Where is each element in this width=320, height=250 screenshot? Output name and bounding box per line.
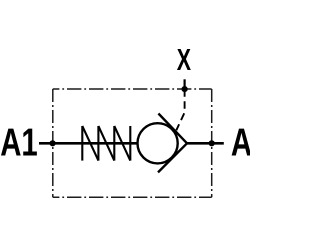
check valve ball (circle)	[138, 123, 178, 163]
junction dot at A1 on box left edge	[50, 140, 56, 146]
pilot line (dashed) from X junction to valve	[176, 89, 184, 130]
svg-text:A1: A1	[0, 122, 38, 165]
valve seat upper line	[158, 114, 187, 144]
wire: stub from X label down to junction	[184, 79, 186, 89]
enclosure dashed box left edge	[52, 89, 54, 197]
enclosure dashed box right edge	[211, 89, 213, 197]
junction dot at X on box top edge	[182, 86, 188, 92]
junction dot at A on box right edge	[209, 140, 215, 146]
wire: line from valve seat apex to port A	[187, 142, 224, 145]
enclosure dashed box top edge	[53, 88, 212, 90]
enclosure dashed box bottom edge	[53, 196, 212, 198]
svg-text:X: X	[177, 43, 192, 77]
svg-text:A: A	[231, 121, 250, 164]
wire: main line from port A1 to check valve circle	[39, 142, 138, 145]
spring (sawtooth)	[82, 126, 130, 161]
valve seat lower line	[158, 143, 187, 172]
